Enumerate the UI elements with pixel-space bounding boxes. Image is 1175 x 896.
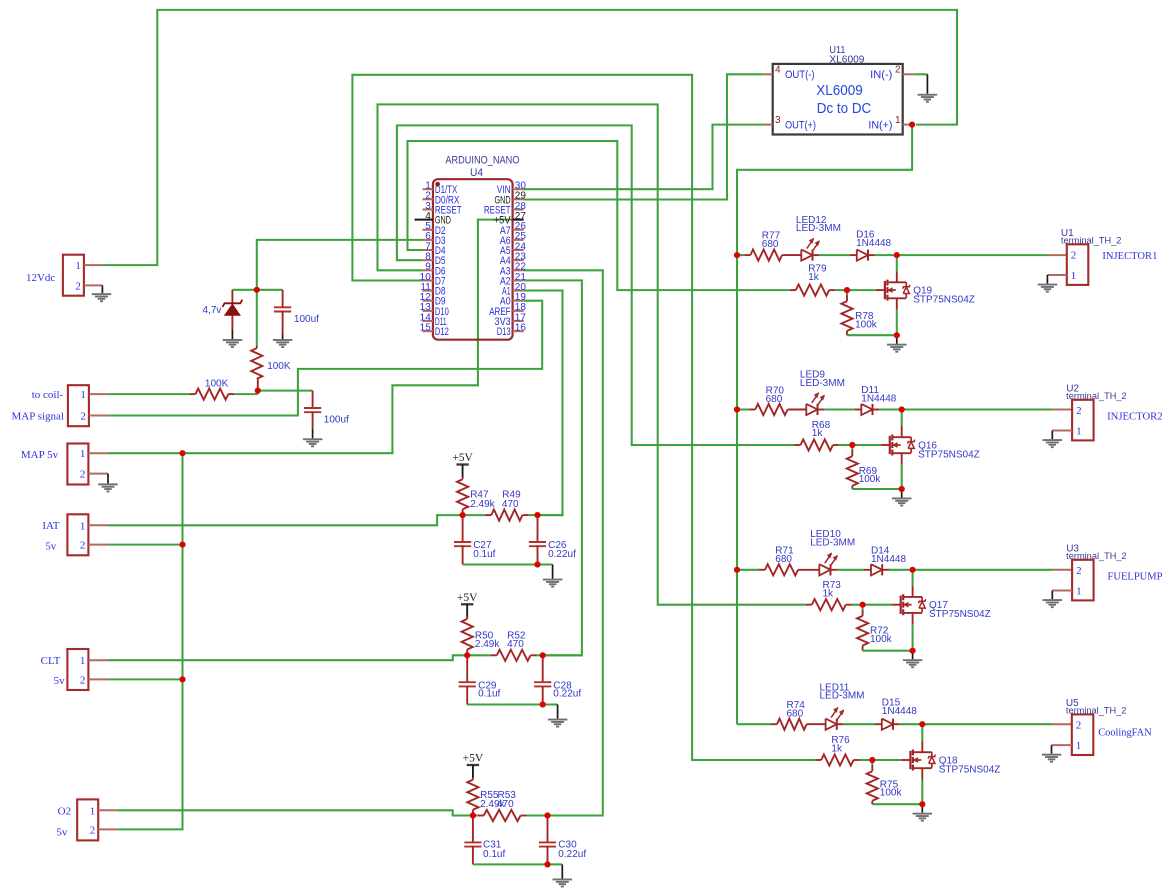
svg-text:MAP signal: MAP signal <box>12 410 64 422</box>
svg-text:100K: 100K <box>205 378 229 389</box>
svg-text:IN(+): IN(+) <box>868 119 892 131</box>
svg-text:1: 1 <box>80 448 86 460</box>
svg-text:2: 2 <box>1071 250 1077 262</box>
svg-text:2: 2 <box>895 64 901 75</box>
svg-text:100k: 100k <box>855 320 878 331</box>
svg-text:terminal_TH_2: terminal_TH_2 <box>1066 551 1127 561</box>
svg-text:ARDUINO_NANO: ARDUINO_NANO <box>445 155 519 167</box>
svg-text:100K: 100K <box>267 361 291 372</box>
svg-text:LED-3MM: LED-3MM <box>800 378 845 389</box>
svg-text:2: 2 <box>80 411 86 423</box>
svg-text:O2: O2 <box>58 805 71 817</box>
svg-text:680: 680 <box>766 394 783 405</box>
svg-text:16: 16 <box>515 323 527 334</box>
svg-text:1k: 1k <box>808 272 820 283</box>
svg-text:1k: 1k <box>812 428 824 439</box>
svg-text:1k: 1k <box>831 744 843 755</box>
svg-text:U4: U4 <box>470 167 483 179</box>
svg-text:4,7v: 4,7v <box>202 305 221 316</box>
svg-text:5v: 5v <box>54 675 66 687</box>
svg-text:12Vdc: 12Vdc <box>26 272 55 284</box>
svg-text:0.1uf: 0.1uf <box>483 849 505 860</box>
svg-text:+5V: +5V <box>452 452 473 464</box>
svg-text:+5V: +5V <box>457 592 478 604</box>
svg-text:2: 2 <box>90 824 96 836</box>
svg-text:MAP 5v: MAP 5v <box>21 449 59 461</box>
svg-text:1k: 1k <box>823 589 835 600</box>
svg-text:470: 470 <box>497 799 514 810</box>
svg-text:100k: 100k <box>880 788 903 799</box>
svg-text:INJECTOR1: INJECTOR1 <box>1102 250 1157 262</box>
svg-text:2: 2 <box>75 280 81 292</box>
svg-text:0.22uf: 0.22uf <box>558 849 586 860</box>
svg-text:0.22uf: 0.22uf <box>553 688 581 699</box>
svg-text:1: 1 <box>1076 740 1082 752</box>
svg-text:100uf: 100uf <box>324 414 349 425</box>
svg-text:2: 2 <box>80 674 86 686</box>
svg-text:OUT(-): OUT(-) <box>785 69 815 81</box>
svg-text:0.1uf: 0.1uf <box>478 688 500 699</box>
svg-text:terminal_TH_2: terminal_TH_2 <box>1066 706 1127 716</box>
svg-text:STP75NS04Z: STP75NS04Z <box>918 449 980 460</box>
svg-text:Dc to DC: Dc to DC <box>817 100 872 117</box>
svg-text:OUT(+): OUT(+) <box>785 119 816 131</box>
svg-text:680: 680 <box>762 239 779 250</box>
svg-text:2: 2 <box>1076 720 1082 732</box>
svg-text:0.22uf: 0.22uf <box>548 549 576 560</box>
svg-text:1: 1 <box>80 389 86 401</box>
svg-text:STP75NS04Z: STP75NS04Z <box>939 764 1001 775</box>
svg-text:2: 2 <box>1076 405 1082 417</box>
svg-text:D12: D12 <box>435 326 449 338</box>
svg-text:FUELPUMP: FUELPUMP <box>1108 571 1163 583</box>
svg-text:2.49k: 2.49k <box>475 639 500 650</box>
svg-text:+5V: +5V <box>463 753 484 765</box>
svg-text:100k: 100k <box>870 634 893 645</box>
svg-text:100uf: 100uf <box>294 314 319 325</box>
svg-text:1N4448: 1N4448 <box>882 706 917 717</box>
svg-text:STP75NS04Z: STP75NS04Z <box>929 609 991 620</box>
svg-text:470: 470 <box>507 639 524 650</box>
svg-text:IN(-): IN(-) <box>870 69 892 81</box>
svg-text:IAT: IAT <box>42 520 59 532</box>
svg-text:4: 4 <box>775 64 781 75</box>
svg-text:1N4448: 1N4448 <box>861 393 896 404</box>
svg-text:STP75NS04Z: STP75NS04Z <box>913 295 975 306</box>
svg-text:3: 3 <box>775 115 781 126</box>
svg-text:1: 1 <box>90 805 96 817</box>
svg-text:2: 2 <box>80 469 86 481</box>
svg-text:XL6009: XL6009 <box>829 55 864 66</box>
svg-text:1N4448: 1N4448 <box>856 238 891 249</box>
svg-text:1: 1 <box>75 260 81 272</box>
svg-text:terminal_TH_2: terminal_TH_2 <box>1066 391 1127 401</box>
svg-text:5v: 5v <box>45 540 57 552</box>
svg-text:0.1uf: 0.1uf <box>473 549 495 560</box>
svg-text:XL6009: XL6009 <box>816 82 863 99</box>
svg-text:1: 1 <box>80 520 86 532</box>
svg-text:680: 680 <box>787 708 804 719</box>
svg-text:2: 2 <box>1076 565 1082 577</box>
svg-text:1: 1 <box>80 655 86 667</box>
svg-text:LED-3MM: LED-3MM <box>810 538 855 549</box>
svg-text:1: 1 <box>895 115 901 126</box>
svg-text:CLT: CLT <box>41 655 61 667</box>
svg-text:5v: 5v <box>56 827 68 839</box>
svg-text:1: 1 <box>1076 586 1082 598</box>
svg-text:1N4448: 1N4448 <box>871 554 906 565</box>
svg-text:INJECTOR2: INJECTOR2 <box>1107 411 1163 423</box>
svg-text:terminal_TH_2: terminal_TH_2 <box>1061 235 1122 245</box>
svg-text:100k: 100k <box>859 474 882 485</box>
svg-text:1: 1 <box>1071 270 1077 282</box>
svg-text:D13: D13 <box>497 326 511 338</box>
svg-text:LED-3MM: LED-3MM <box>796 223 841 234</box>
svg-text:2: 2 <box>80 540 86 552</box>
svg-text:LED-3MM: LED-3MM <box>820 691 865 702</box>
svg-text:CoolingFAN: CoolingFAN <box>1098 727 1152 739</box>
svg-text:to coil-: to coil- <box>32 389 64 401</box>
svg-text:1: 1 <box>1076 426 1082 438</box>
svg-text:470: 470 <box>502 499 519 510</box>
svg-text:15: 15 <box>420 323 432 334</box>
svg-text:680: 680 <box>775 554 792 565</box>
svg-text:2.49k: 2.49k <box>470 499 495 510</box>
